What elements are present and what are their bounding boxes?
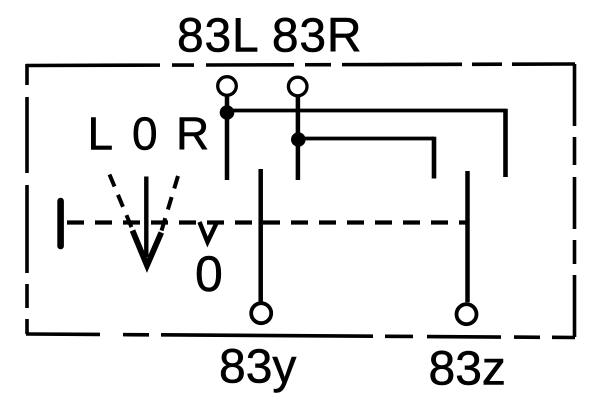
- wire from 83L junction to right hook: [227, 109, 506, 113]
- enclosure border top: [26, 64, 575, 66]
- wire right hook vertical: [503, 109, 508, 177]
- svg-text:83y: 83y: [219, 341, 296, 394]
- contact bar left: [57, 201, 64, 246]
- lever position L dashed: [110, 175, 134, 233]
- svg-text:R: R: [176, 108, 209, 160]
- junction dot on 83L wire: [220, 105, 235, 120]
- lever middle shaft: [144, 177, 148, 258]
- svg-text:L: L: [88, 108, 114, 160]
- lever position R dashed: [161, 176, 179, 234]
- terminal circle 83y: [251, 303, 271, 323]
- junction dot on 83R wire: [291, 132, 306, 147]
- enclosure border bottom: [26, 334, 575, 338]
- svg-text:0: 0: [195, 246, 223, 302]
- wire from 83R junction to middle hook: [298, 137, 434, 141]
- svg-text:83z: 83z: [429, 343, 506, 396]
- lever arrowhead: [133, 231, 162, 266]
- wire 83L stub: [225, 96, 230, 181]
- svg-text:83L 83R: 83L 83R: [177, 10, 362, 63]
- wire middle hook vertical: [432, 137, 437, 179]
- terminal circle 83R: [288, 77, 307, 96]
- enclosure border right: [573, 64, 577, 338]
- svg-text:0: 0: [132, 108, 158, 160]
- detent notch: [200, 222, 217, 242]
- wiper dashed travel line: [67, 220, 466, 224]
- terminal circle 83L: [218, 77, 237, 96]
- enclosure border left: [25, 64, 29, 334]
- wire 83y: [258, 169, 263, 302]
- terminal circle 83z: [457, 304, 477, 324]
- wire 83R stub: [296, 96, 301, 180]
- wire 83z: [465, 171, 470, 302]
